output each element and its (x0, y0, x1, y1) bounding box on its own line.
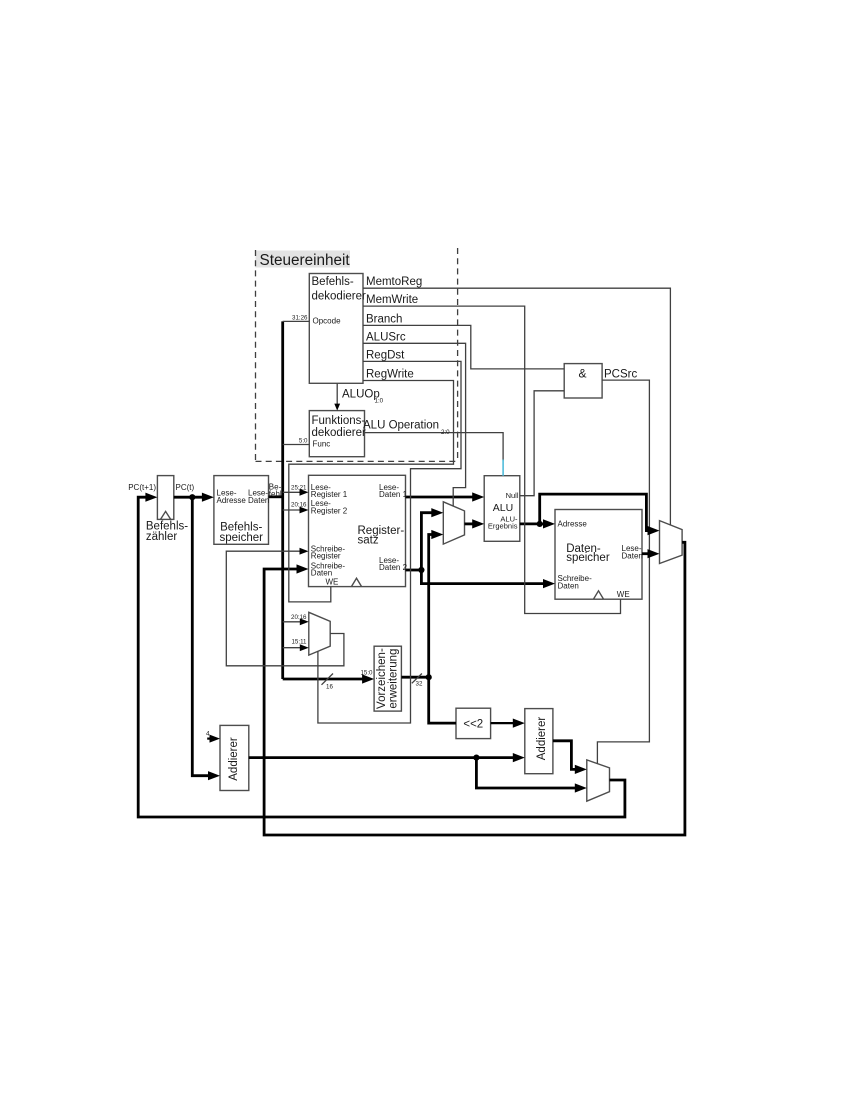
wire ALU Operation from Funktionsdekodierer toward ALU (365, 433, 504, 461)
svg-text:erweiterung: erweiterung (388, 649, 400, 709)
control unit dashed border (Steuereinheit) (256, 248, 458, 461)
wire control MemWrite to Datenspeicher WE (363, 306, 621, 613)
svg-text:Daten: Daten (558, 582, 579, 591)
arrowhead into ALU input B (472, 519, 484, 528)
svg-text:31:26: 31:26 (292, 315, 308, 322)
svg-text:Func: Func (313, 440, 331, 449)
svg-text:Ergebnis: Ergebnis (488, 522, 518, 531)
svg-text:Addierer: Addierer (228, 737, 240, 781)
Steuereinheit label background (256, 251, 351, 268)
arrowhead into mux M1 input 2 (300, 644, 309, 651)
wire control RegDst to mux M1 select (318, 361, 461, 723)
svg-text:Daten 1: Daten 1 (379, 490, 408, 499)
arrowhead into mux M3 input 2 (648, 549, 660, 558)
wire constant 4 into adder U3 (207, 737, 214, 739)
svg-text:Steuereinheit: Steuereinheit (260, 252, 351, 269)
svg-text:Funktions-: Funktions- (312, 415, 366, 427)
wire instruction 31:26 Opcode to Befehlsdekodierer (283, 320, 310, 322)
wire PC(t) branch down to adder U3 (192, 497, 213, 776)
svg-text:16: 16 (326, 684, 333, 691)
wire Lese-Daten 2 down-branch to Datenspeicher Schreibe-Daten (421, 570, 548, 584)
wire instruction 20:16 to mux M1 input 1 (283, 621, 304, 623)
svg-text:15:0: 15:0 (360, 670, 373, 677)
wire shift-left-2 output to adder U4 input 1 (491, 722, 519, 724)
svg-text:25:21: 25:21 (291, 484, 307, 491)
arrowhead into mux M2 input 2 (431, 530, 443, 539)
svg-text:MemtoReg: MemtoReg (366, 276, 422, 288)
wire adder U3 output PC+1 (249, 756, 519, 759)
clock input triangle of Datenspeicher (593, 591, 603, 599)
mux M1 (RegDst, write register select) (309, 612, 330, 655)
svg-text:ALUSrc: ALUSrc (366, 331, 406, 343)
wire Lese-Daten 2 up-branch to mux M2 input 1 (421, 513, 437, 570)
wire sign-extended up-branch to mux M2 input 2 (429, 535, 437, 678)
svg-text:dekodierer: dekodierer (312, 427, 367, 439)
arrowhead into mux M2 input 1 (431, 508, 443, 517)
wire instruction 20:16 to Lese-Register 2 (283, 509, 303, 511)
wire control MemtoReg (363, 288, 670, 525)
wire mux M3 output write-back to Registersatz Schreibe-Daten (264, 542, 685, 835)
sign extension unit (Vorzeichenerweiterung) (374, 646, 401, 711)
wire PC(t) from PC to Befehlsspeicher Lese-Adresse (174, 496, 208, 499)
arrowhead into Befehlsspeicher Lese-Adresse (202, 493, 214, 502)
svg-text:fehl: fehl (269, 489, 282, 498)
svg-text:15:11: 15:11 (291, 639, 307, 646)
svg-text:Daten 2: Daten 2 (379, 563, 408, 572)
wire instruction 15:11 to mux M1 input 2 (283, 647, 304, 649)
arrowhead into Lese-Register 2 (300, 507, 309, 514)
wire PC(t+1) feedback: PCSrc mux output to PC input (138, 497, 625, 817)
wire Lese-Daten 1 to ALU input A (406, 496, 478, 499)
opcode decoder (Befehlsdekodierer) (309, 274, 363, 384)
clock input triangle of PC (161, 511, 171, 519)
svg-text:speicher: speicher (566, 552, 610, 564)
bit width slash 32 (412, 674, 422, 684)
svg-text:Branch: Branch (366, 313, 402, 325)
wire PCSrc from AND gate to mux M4 select (597, 380, 649, 763)
arrowhead of constant 4 into adder U3 (210, 735, 221, 743)
adder U3 (Addierer, PC+1) (220, 725, 249, 790)
svg-text:Adresse: Adresse (558, 520, 588, 529)
arrowhead into Datenspeicher Schreibe-Daten (543, 579, 555, 588)
svg-text:Adresse: Adresse (217, 496, 247, 505)
wire instruction bus vertical (281, 321, 284, 679)
wire Datenspeicher Lese-Daten to mux M3 input 2 (642, 552, 653, 555)
wire instruction 25:21 to Lese-Register 1 (283, 491, 303, 493)
ALU U2 (484, 476, 520, 542)
wire mux M1 output to Registersatz Schreibe-Register (226, 551, 344, 666)
instruction memory (Befehlsspeicher) (214, 476, 269, 545)
arrowhead into mux M4 input 1 (575, 765, 587, 774)
svg-text:Addierer: Addierer (536, 717, 548, 761)
junction ALU-Ergebnis node (537, 521, 543, 527)
arrowhead into adder U4 input 2 (513, 753, 525, 762)
junction PC+1 node (473, 755, 479, 761)
wire sign-extension output 32 bit (401, 676, 428, 679)
svg-text:Vorzeichen-: Vorzeichen- (376, 648, 388, 709)
junction PC(t) node (189, 494, 195, 500)
svg-text:RegDst: RegDst (366, 349, 405, 361)
svg-text:2:0: 2:0 (441, 429, 450, 436)
shift left 2 unit (456, 708, 491, 738)
wire ALU-Ergebnis bypass over Datenspeicher to mux M3 input 1 (540, 494, 653, 530)
arrowhead into Schreibe-Register (300, 548, 309, 555)
arrowhead into Registersatz Schreibe-Daten (297, 564, 309, 573)
arrowhead into Datenspeicher Adresse (543, 519, 555, 528)
svg-text:4: 4 (206, 731, 210, 738)
wire PC+1 down-branch to PCSrc mux input 2 (476, 758, 580, 788)
svg-text:Befehls-: Befehls- (312, 276, 354, 288)
wire instruction 15:0 to sign extension (283, 678, 368, 681)
svg-text:ALU: ALU (493, 502, 513, 514)
arrowhead into Vorzeichenerweiterung 15:0 (362, 674, 374, 683)
svg-text:Daten: Daten (311, 569, 332, 578)
wire ALU-Ergebnis to Datenspeicher Adresse (520, 523, 549, 526)
arrowhead into mux M3 input 1 (648, 526, 660, 535)
svg-text:32: 32 (416, 681, 423, 688)
register PC U1 (Befehlszaehler) (157, 476, 173, 520)
svg-text:MemWrite: MemWrite (366, 294, 418, 306)
svg-text:Null: Null (506, 491, 519, 500)
svg-text:dekodierer: dekodierer (312, 291, 367, 303)
arrowhead into Lese-Register 1 (300, 489, 309, 496)
wire mux M2 output to ALU input B (465, 523, 478, 526)
svg-text:Daten: Daten (248, 496, 269, 505)
wire instruction 5:0 Func to Funktionsdekodierer (283, 444, 310, 446)
svg-text:ALU Operation: ALU Operation (363, 420, 439, 432)
svg-text:Register 1: Register 1 (311, 490, 348, 499)
svg-text:zähler: zähler (146, 531, 177, 543)
svg-text:Opcode: Opcode (313, 317, 342, 326)
svg-text:&: & (579, 367, 587, 381)
svg-text:20:16: 20:16 (291, 614, 307, 621)
arrowhead into mux M1 input 1 (300, 618, 309, 625)
svg-text:PC(t+1): PC(t+1) (128, 483, 156, 492)
wire Lese-Daten 2 from Registersatz to junction (406, 569, 422, 572)
svg-text:speicher: speicher (220, 532, 264, 544)
register file (Registersatz) (309, 475, 406, 586)
wire ALUOp from Befehlsdekodierer to Funktionsdekodierer (336, 383, 338, 405)
junction Lese-Daten 2 node (418, 567, 424, 573)
svg-text:20:16: 20:16 (291, 502, 307, 509)
mux M3 (MemtoReg, write-back select) (660, 521, 683, 564)
arrowhead of ALUOp into Funktionsdekodierer (334, 404, 340, 411)
wire control RegWrite to Registersatz WE (289, 381, 454, 602)
wire control Branch to AND gate input 1 (363, 325, 564, 369)
wire ALU Operation cyan segment into ALU select (502, 460, 504, 476)
svg-text:WE: WE (326, 577, 339, 586)
mux M2 (ALUSrc, ALU operand B select) (443, 502, 464, 544)
arrowhead into ALU input A (472, 492, 484, 501)
arrowhead into mux M4 input 2 (575, 783, 587, 792)
arrowhead into adder U3 input 2 (208, 771, 220, 780)
bit width slash 16 (322, 674, 334, 685)
svg-text:WE: WE (617, 590, 630, 599)
wire Befehl: instruction from Befehlsspeicher to instruction bus (269, 495, 283, 498)
AND gate U5 (564, 364, 602, 398)
wire Null (zero flag) from ALU to AND gate input 2 (520, 391, 564, 496)
svg-text:PCSrc: PCSrc (604, 369, 637, 381)
wire sign-extended down-branch to shift left 2 (429, 677, 456, 723)
clock input triangle of Registersatz (351, 578, 361, 586)
svg-text:5:0: 5:0 (299, 438, 308, 445)
svg-text:satz: satz (358, 535, 379, 547)
wire control ALUSrc to mux M2 select (363, 343, 466, 506)
svg-text:RegWrite: RegWrite (366, 369, 414, 381)
svg-text:Register: Register (311, 552, 341, 561)
wire adder U4 output branch target to PCSrc mux input 1 (553, 741, 581, 770)
svg-text:PC(t): PC(t) (176, 483, 195, 492)
function decoder (Funktionsdekodierer) (309, 411, 364, 457)
adder U4 (Addierer, branch target) (525, 709, 553, 774)
data memory (Datenspeicher) (555, 510, 642, 600)
svg-text:Daten: Daten (622, 552, 643, 561)
svg-text:1:0: 1:0 (375, 398, 384, 405)
mux M4 (PCSrc, next PC select) (587, 760, 610, 801)
svg-text:<<2: <<2 (463, 718, 483, 730)
junction sign-extended 32-bit node (426, 674, 432, 680)
svg-text:Register 2: Register 2 (311, 506, 348, 515)
arrowhead into PC input (145, 493, 157, 502)
arrowhead into adder U4 input 1 (513, 719, 525, 728)
